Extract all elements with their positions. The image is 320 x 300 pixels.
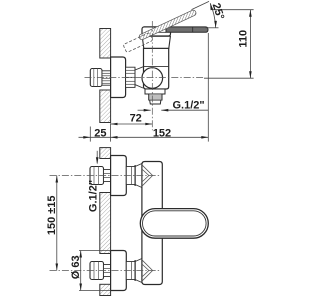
lower union ferrule (104, 265, 111, 277)
lower union nut (90, 262, 104, 280)
svg-text:Ø 63: Ø 63 (70, 255, 82, 279)
stepped cone rings (126, 67, 135, 87)
union nut N1 (90, 69, 102, 87)
svg-text:150 ±15: 150 ±15 (46, 195, 58, 235)
vertical centerline body (151, 21, 153, 130)
svg-text:110: 110 (238, 30, 250, 48)
wall section bottom (100, 284, 111, 295)
svg-text:152: 152 (153, 128, 171, 140)
wall section middle (100, 193, 111, 254)
svg-text:25: 25 (94, 127, 106, 139)
dimension 72 (111, 123, 153, 125)
cartridge collar trapezoid (142, 36, 170, 48)
raised lever base dashed (123, 32, 153, 52)
union threads through wall (102, 71, 111, 85)
svg-text:G.1/2": G.1/2" (173, 100, 205, 112)
extension line nut face (89, 127, 91, 142)
body column (142, 162, 162, 285)
svg-text:72: 72 (130, 113, 142, 125)
dimension 25 and 152 shared line (79, 136, 209, 138)
angle 25 ray (192, 1, 210, 9)
horizontal centerline union axis (85, 77, 205, 79)
dimension 110 extension top (212, 9, 254, 11)
upper inlet centerline (50, 175, 162, 177)
upper neck (126, 167, 135, 185)
svg-text:G.1/2": G.1/2" (87, 180, 99, 212)
dimension 150 +-15 (56, 176, 58, 271)
upper wall flange (111, 156, 127, 196)
extension line lever tip (207, 33, 209, 142)
dimension dia 63 (79, 250, 111, 252)
wall section top (100, 148, 111, 159)
wall flange escutcheon (111, 57, 126, 98)
extension line wall face (110, 123, 112, 141)
nipple tip (150, 100, 161, 104)
wall upper section (100, 29, 111, 59)
lower wall flange (111, 251, 127, 291)
wall lower section (100, 90, 111, 123)
cone transition (135, 67, 143, 88)
upper union nut (90, 167, 104, 185)
mixer body column (144, 48, 169, 89)
upper cone expansion (135, 164, 142, 188)
upper cone chevron (142, 165, 153, 186)
dimension 110 extension bottom (204, 77, 254, 79)
G.1/2 leader bottom view (96, 151, 98, 164)
cartridge dome circle (142, 68, 163, 89)
handle oval (140, 209, 208, 239)
hose nipple threaded (149, 94, 162, 100)
lever base (142, 27, 171, 36)
angle 25 arc (210, 3, 216, 27)
lower inlet centerline (50, 270, 162, 272)
lower cone chevron (142, 260, 153, 281)
collar below body (145, 89, 165, 94)
lower cone expansion (135, 259, 142, 283)
lower neck (126, 262, 135, 280)
dimension 110 line (249, 10, 251, 79)
lever top edge extension (206, 27, 219, 29)
upper union ferrule (104, 170, 111, 182)
lever handle bar (166, 27, 208, 32)
raised lever hatched (open position) (138, 9, 197, 40)
